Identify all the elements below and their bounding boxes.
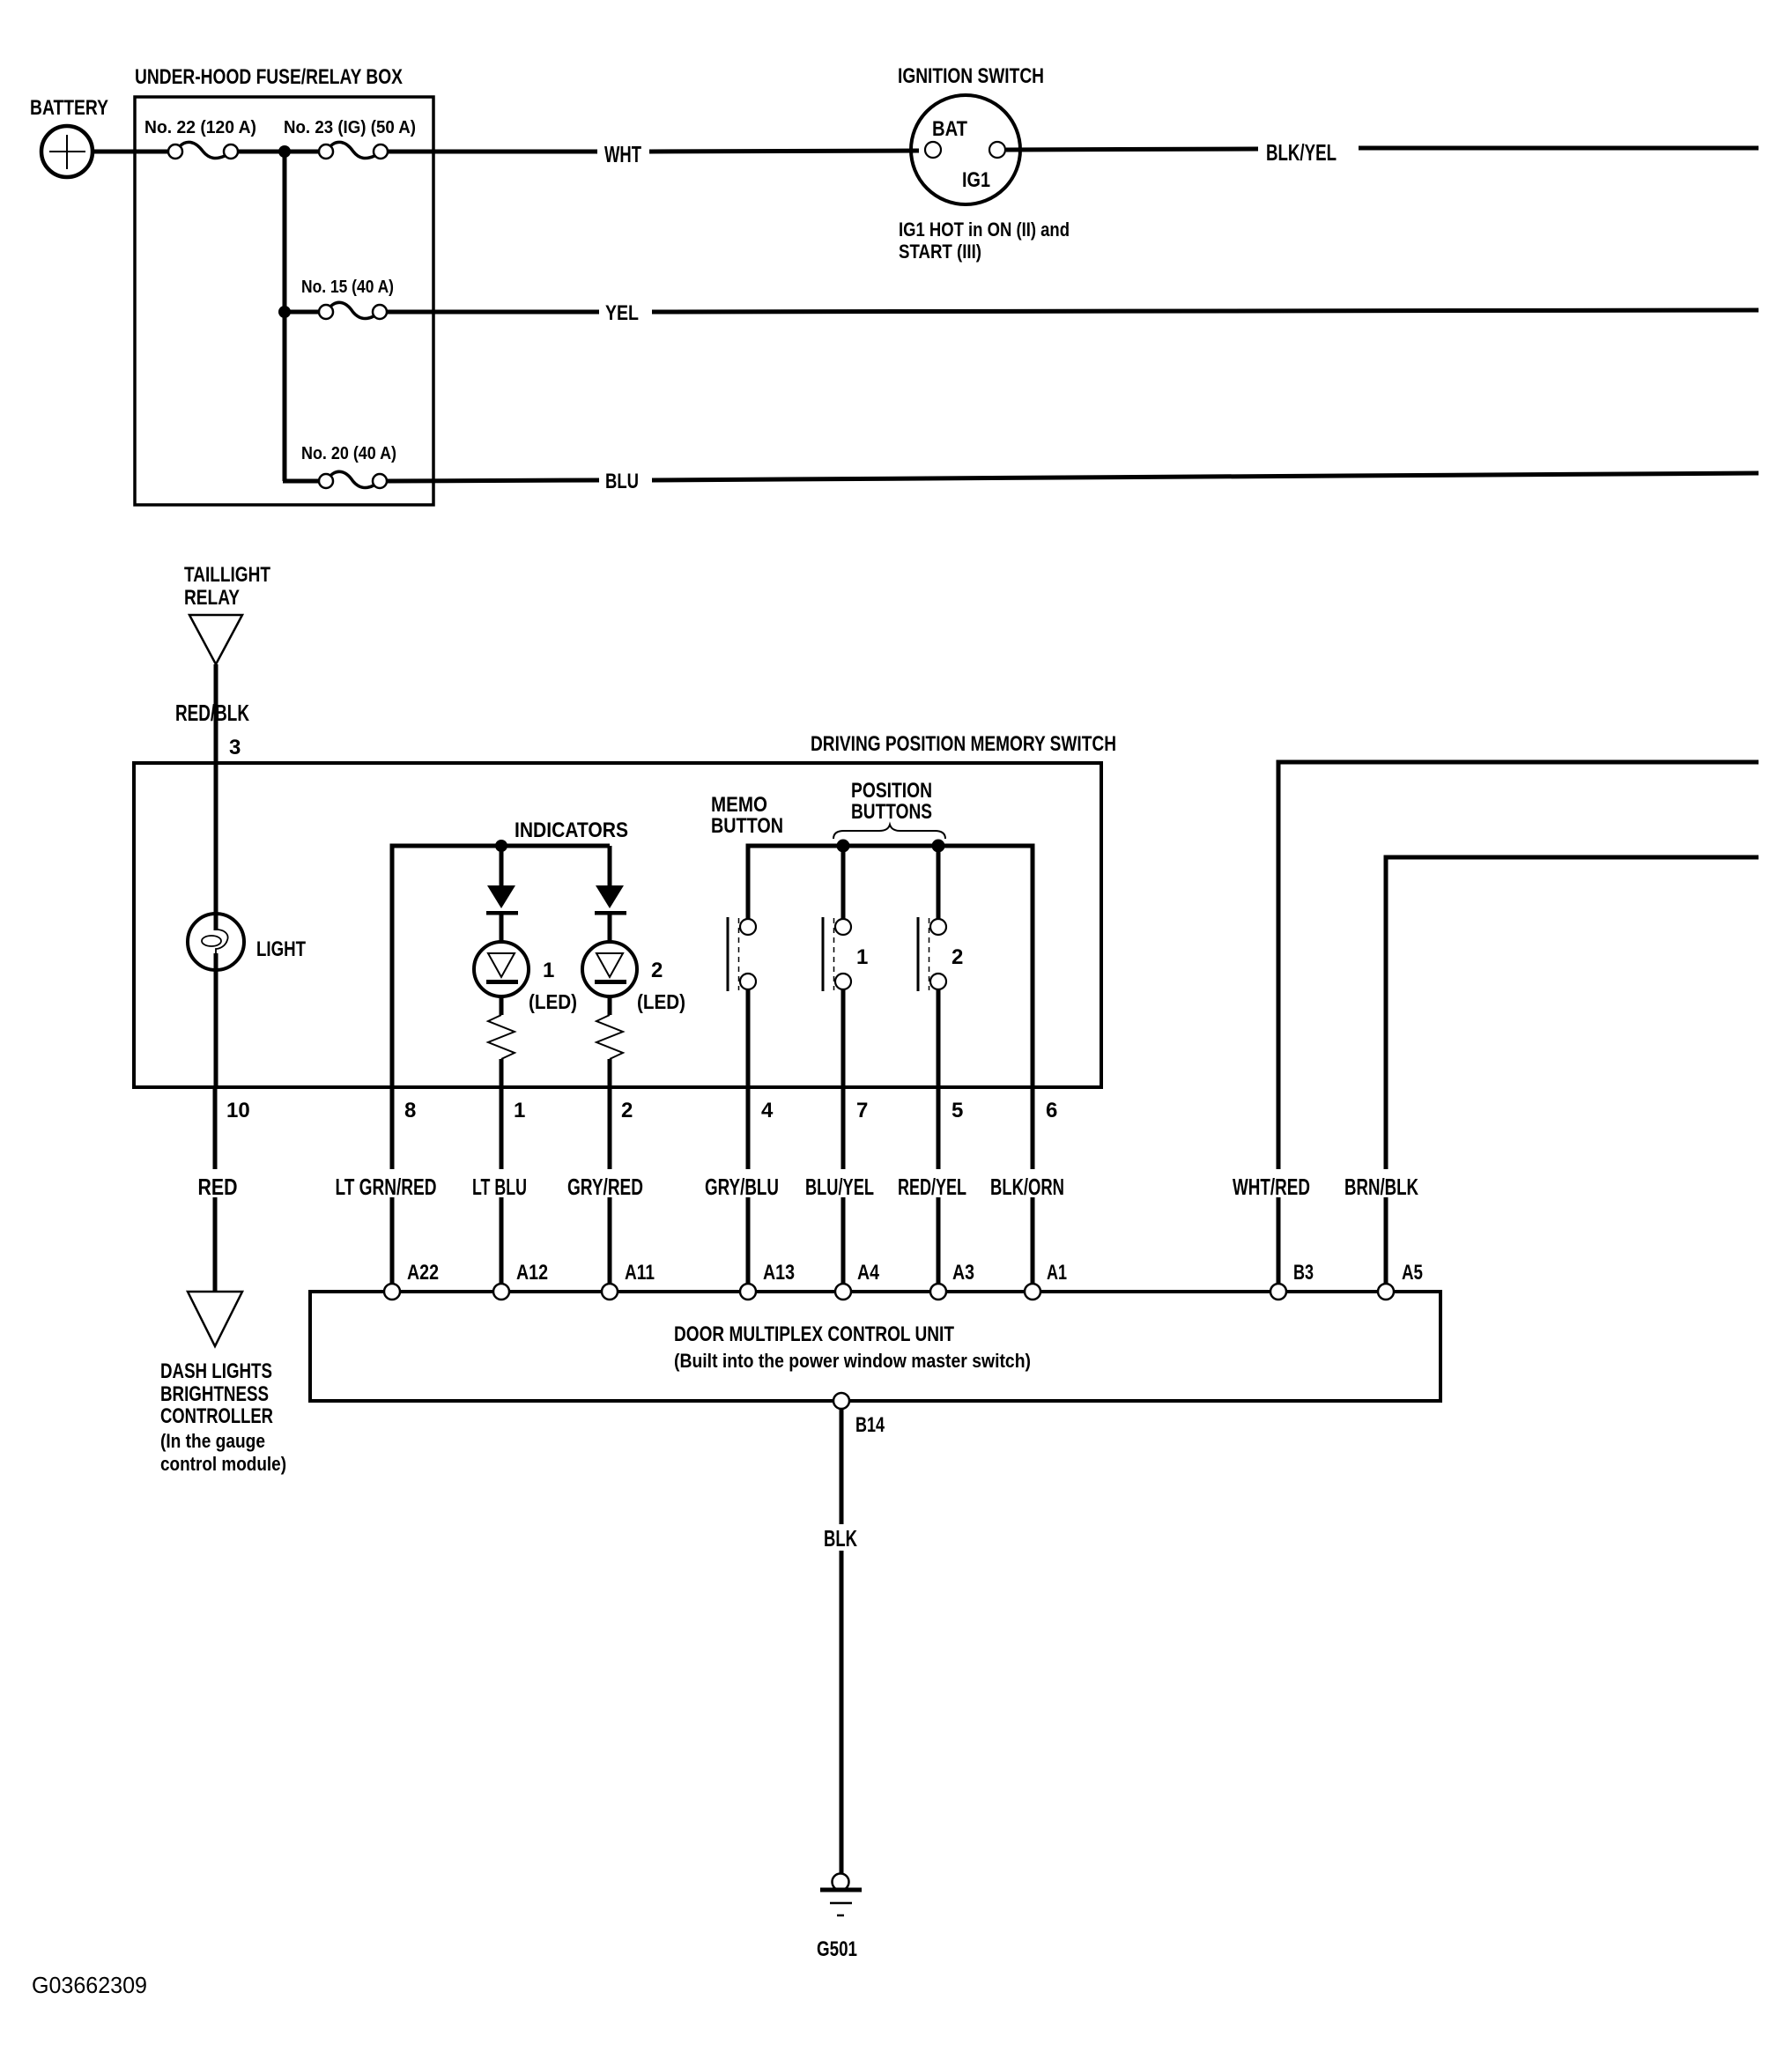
svg-text:(Built into the power window m: (Built into the power window master swit… [674,1350,1031,1372]
svg-text:CONTROLLER: CONTROLLER [160,1404,273,1428]
svg-text:LT GRN/RED: LT GRN/RED [336,1174,437,1200]
svg-text:START (III): START (III) [899,241,981,263]
connector pin A13 [740,1284,756,1300]
wire battery to fuse box [93,150,169,154]
svg-text:BLK/YEL: BLK/YEL [1266,139,1337,166]
svg-text:A11: A11 [625,1261,655,1285]
wire B3 lower [1277,1197,1281,1285]
svg-text:4: 4 [761,1099,774,1122]
svg-text:MEMO: MEMO [711,793,767,817]
svg-text:2: 2 [621,1099,633,1122]
resistor for LED 1 [488,1015,515,1059]
wire A4 lower [841,1197,846,1285]
svg-text:BUTTON: BUTTON [711,814,783,838]
junction dot middle [278,306,291,318]
wire RED/BLK [214,664,218,763]
wire A1 lower [1031,1197,1035,1285]
svg-text:A5: A5 [1402,1261,1423,1285]
svg-text:G03662309: G03662309 [32,1972,147,1998]
svg-text:BLK: BLK [824,1525,857,1552]
svg-text:DASH LIGHTS: DASH LIGHTS [160,1359,272,1383]
svg-text:IG1 HOT in ON (II) and: IG1 HOT in ON (II) and [899,218,1070,241]
svg-text:IG1: IG1 [962,168,990,192]
svg-text:1: 1 [543,959,554,982]
svg-text:8: 8 [404,1099,416,1122]
svg-text:10: 10 [226,1099,250,1122]
svg-text:INDICATORS: INDICATORS [515,818,628,842]
wire junction to fuse No. 15 [285,310,319,315]
svg-text:2: 2 [651,959,663,982]
wire A3 upper [937,1087,941,1169]
taillight relay symbol [189,615,242,664]
svg-text:A4: A4 [857,1261,880,1285]
svg-text:WHT/RED: WHT/RED [1233,1174,1310,1200]
wire A22 upper [390,1087,395,1169]
wire BLK lower [840,1551,844,1874]
svg-text:UNDER-HOOD FUSE/RELAY BOX: UNDER-HOOD FUSE/RELAY BOX [135,65,403,89]
wire A13 lower [746,1197,751,1285]
wire A4 upper [841,1087,846,1169]
wire A22 lower [390,1197,395,1285]
svg-text:6: 6 [1046,1099,1057,1122]
wire BLK/YEL left segment [1006,149,1258,150]
wire A3 lower [937,1197,941,1285]
svg-text:POSITION: POSITION [851,779,932,803]
svg-text:1: 1 [856,945,868,969]
svg-text:TAILLIGHT: TAILLIGHT [184,563,270,587]
connector pin A11 [602,1284,618,1300]
svg-text:WHT: WHT [604,141,641,167]
wire A12 lower [500,1197,504,1285]
wire YEL right segment [652,310,1759,312]
wire A12 upper [500,1087,504,1169]
ignition switch [911,95,1020,204]
wire memo bus [748,846,1033,1087]
wire BLU left segment [387,480,599,481]
svg-text:No. 15 (40 A): No. 15 (40 A) [301,278,394,297]
connector pin A22 [384,1284,400,1300]
svg-text:control module): control module) [160,1453,286,1475]
wire LED1 to pin 1 [500,1059,504,1087]
svg-text:A22: A22 [407,1261,439,1285]
svg-text:(LED): (LED) [637,990,685,1013]
position button 2 switch [918,846,946,1087]
connector pin A5 [1378,1284,1394,1300]
fuse No. 20 (40 A) [319,471,387,488]
wire light branch [214,763,218,930]
wire light to pin 10 [214,953,218,1087]
battery [41,126,93,177]
junction dot top [278,145,291,158]
svg-text:YEL: YEL [605,301,639,325]
memo button switch [728,917,756,1087]
junction dot indicator bus [495,840,507,852]
wire BLK upper [840,1409,844,1524]
connector pin A3 [930,1284,946,1300]
connector pin B14 [833,1393,849,1409]
wire junction to fuse No. 20 [283,479,319,484]
svg-text:1: 1 [514,1099,525,1122]
connector pin A12 [493,1284,509,1300]
svg-text:DOOR MULTIPLEX CONTROL UNIT: DOOR MULTIPLEX CONTROL UNIT [674,1322,954,1346]
svg-text:5: 5 [952,1099,963,1122]
wire BRN/BLK branch [1386,857,1759,1169]
svg-text:G501: G501 [817,1937,857,1961]
ground G501 [820,1874,862,1916]
svg-text:2: 2 [952,945,963,969]
driving position memory switch box [134,763,1101,1087]
under-hood fuse/relay box [135,97,433,505]
svg-text:BRN/BLK: BRN/BLK [1344,1174,1418,1200]
connector pin A1 [1025,1284,1040,1300]
svg-text:LT BLU: LT BLU [472,1174,527,1200]
svg-text:IGNITION SWITCH: IGNITION SWITCH [898,64,1044,88]
svg-text:BAT: BAT [932,117,967,141]
connector pin B3 [1270,1284,1286,1300]
wire A13 upper [746,1087,751,1169]
dash lights brightness controller symbol [188,1292,242,1346]
wire vertical junction bus [283,152,287,481]
wire RED lower [213,1197,218,1292]
svg-text:BRIGHTNESS: BRIGHTNESS [160,1382,269,1406]
svg-text:(LED): (LED) [529,990,577,1013]
svg-text:A1: A1 [1047,1261,1067,1285]
svg-text:B14: B14 [855,1413,885,1437]
svg-text:BATTERY: BATTERY [30,96,108,120]
svg-text:LIGHT: LIGHT [256,937,306,961]
light bulb [188,914,244,970]
svg-text:A12: A12 [516,1261,548,1285]
wire A1 upper [1031,1087,1035,1169]
connector pin A4 [835,1284,851,1300]
LED 1 indicator [474,846,529,1015]
LED 2 indicator [582,846,637,1015]
wire A11 lower [608,1197,612,1285]
svg-text:B3: B3 [1293,1261,1314,1285]
fuse No. 22 (120 A) [168,142,238,159]
junction dot button1 [837,840,850,853]
wire BLK/YEL right segment [1359,146,1759,151]
brace over position buttons [833,825,945,839]
wire WHT right segment [649,151,919,152]
door multiplex control unit box [310,1292,1440,1401]
svg-text:BLU: BLU [605,470,639,493]
wire WHT left segment [388,150,597,154]
svg-text:BLU/YEL: BLU/YEL [805,1174,874,1200]
svg-text:DRIVING POSITION MEMORY SWITCH: DRIVING POSITION MEMORY SWITCH [811,732,1116,756]
wire LED2 to pin 2 [608,1059,612,1087]
wire BLU right segment [652,473,1759,480]
svg-text:BUTTONS: BUTTONS [851,800,932,824]
svg-text:A13: A13 [763,1261,795,1285]
svg-text:RELAY: RELAY [184,586,240,610]
svg-text:No. 23 (IG) (50 A): No. 23 (IG) (50 A) [284,118,416,137]
svg-text:No. 20 (40 A): No. 20 (40 A) [301,444,396,463]
svg-text:(In the gauge: (In the gauge [160,1430,265,1452]
wire YEL left segment [387,310,599,315]
svg-text:GRY/RED: GRY/RED [567,1174,643,1200]
fuse No. 15 (40 A) [319,302,387,319]
svg-text:7: 7 [856,1099,868,1122]
svg-text:GRY/BLU: GRY/BLU [705,1174,779,1200]
svg-text:No. 22 (120 A): No. 22 (120 A) [144,118,256,137]
fuse No. 23 (IG) (50 A) [319,142,388,159]
junction dot button2 [932,840,945,853]
svg-text:3: 3 [229,736,241,759]
svg-text:RED/BLK: RED/BLK [175,700,249,726]
svg-text:RED/YEL: RED/YEL [898,1174,966,1200]
wire fuse22 to junction [238,150,319,154]
wire A5 lower [1384,1197,1388,1285]
wire WHT/RED branch [1278,762,1759,1169]
resistor for LED 2 [596,1015,623,1059]
wire indicator bus [392,846,610,1087]
position button 1 switch [823,846,851,1087]
wire RED upper [213,1087,218,1169]
svg-text:A3: A3 [952,1261,974,1285]
svg-text:RED: RED [198,1174,238,1200]
wire A11 upper [608,1087,612,1169]
svg-text:BLK/ORN: BLK/ORN [990,1174,1064,1200]
